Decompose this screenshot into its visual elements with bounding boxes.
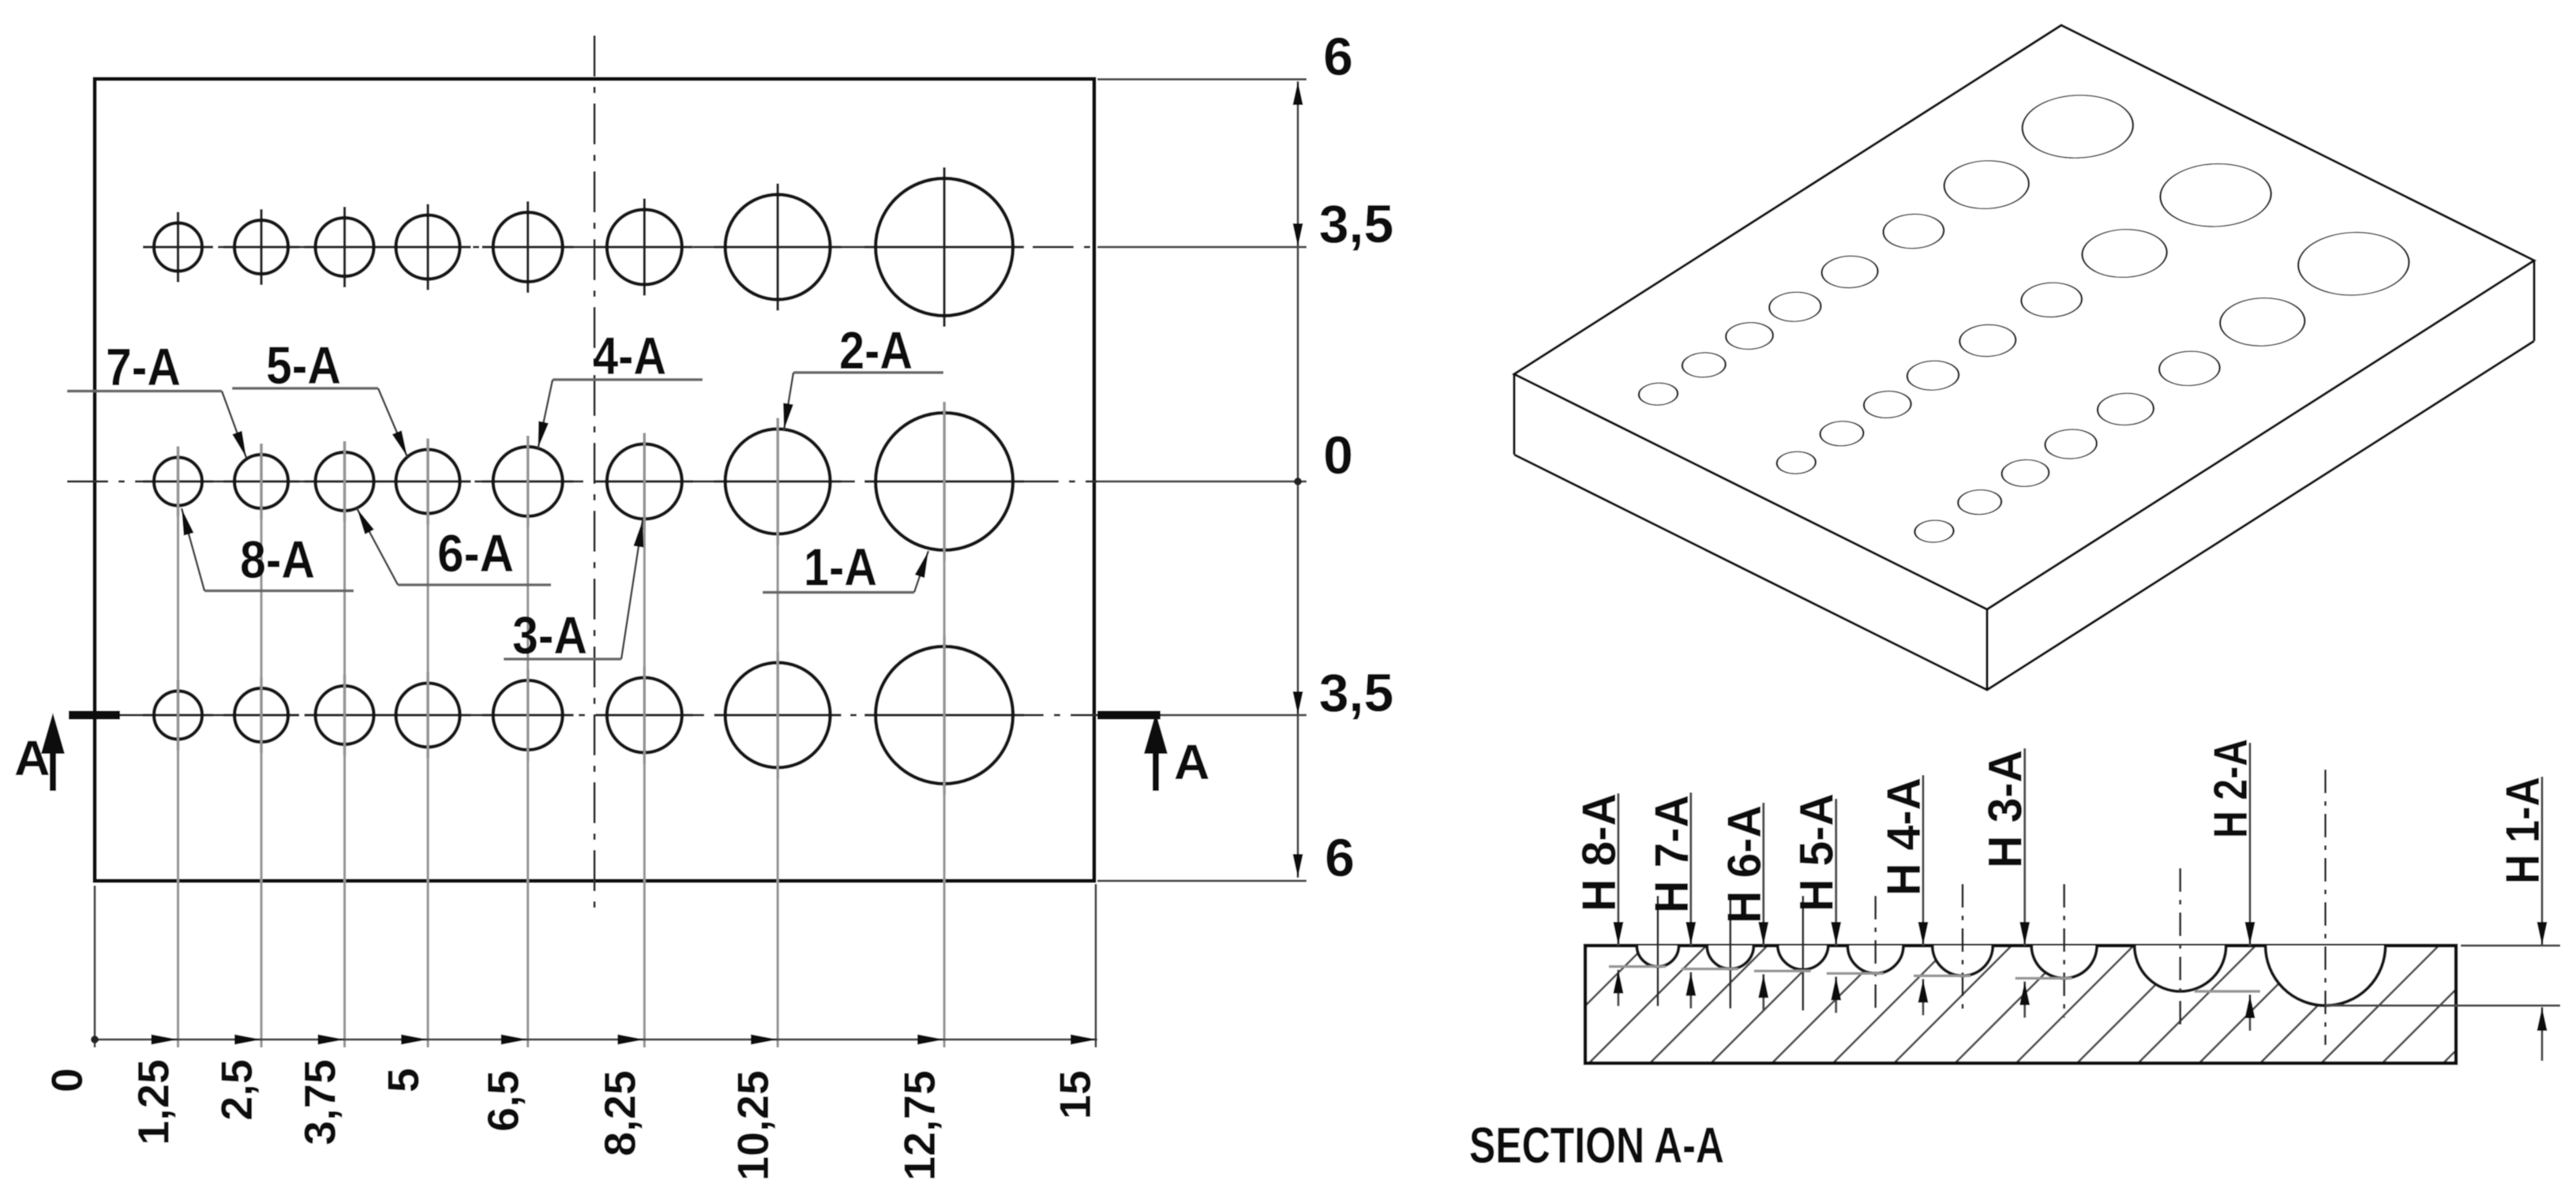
svg-text:10,25: 10,25: [728, 1070, 778, 1181]
section hole 3 centerline: [2063, 884, 2065, 1017]
isometric hole 8-A row 1: [1631, 379, 1685, 410]
hole 1-A row 2: [864, 480, 1024, 482]
isometric hole 7-A row 1: [1674, 348, 1734, 383]
row 2 centerline (datum 0): [67, 481, 1097, 483]
svg-text:3,75: 3,75: [295, 1059, 345, 1145]
svg-text:1-A: 1-A: [804, 538, 877, 597]
bottom extension line at 0: [94, 886, 96, 1047]
section hole 5-A semicircle: [1847, 946, 1903, 973]
svg-text:12,75: 12,75: [894, 1070, 944, 1181]
extension line hole 5: [426, 439, 429, 1048]
section hole 6 centerline: [1802, 896, 1804, 1010]
svg-text:3,5: 3,5: [1319, 663, 1394, 723]
hole 8-A row 1: [143, 245, 213, 248]
svg-text:H 7-A: H 7-A: [1645, 795, 1698, 913]
bottom extension line at 15: [1095, 884, 1097, 1047]
depth dimension H 5-A: [1835, 799, 1837, 946]
section cut mark right: [1097, 711, 1161, 720]
hole 8-A row 3: [143, 714, 213, 716]
svg-text:2,5: 2,5: [212, 1059, 261, 1121]
extension line hole 8: [177, 447, 179, 1048]
isometric hole 6-A row 1: [1716, 317, 1783, 355]
extension line hole 1: [943, 402, 945, 1047]
svg-text:A: A: [14, 731, 51, 786]
hole 3-A row 3: [596, 714, 693, 716]
isometric hole 6-A row 2: [1854, 386, 1921, 424]
isometric hole 4-A row 3: [2086, 387, 2165, 432]
svg-text:SECTION A-A: SECTION A-A: [1469, 1117, 1724, 1174]
isometric hole 5-A row 3: [2034, 424, 2107, 465]
svg-text:H 4-A: H 4-A: [1877, 777, 1930, 896]
hole 2-A row 2: [714, 480, 842, 482]
svg-text:6,5: 6,5: [478, 1070, 528, 1132]
isometric hole 4-A row 2: [1948, 318, 2027, 363]
svg-text:A: A: [1174, 735, 1210, 790]
section plate outline: [1585, 946, 2456, 1063]
svg-text:H 2-A: H 2-A: [2204, 739, 2257, 838]
svg-text:6: 6: [1325, 828, 1355, 888]
hole 6-A row 3: [305, 714, 385, 716]
hole 1-A row 1: [864, 245, 1024, 248]
hole 6-A row 1: [305, 245, 385, 248]
hole 5-A row 1: [385, 245, 471, 248]
svg-text:0: 0: [1323, 425, 1353, 485]
hole 3-A row 1: [596, 245, 693, 248]
depth dimension H 7-A: [1689, 792, 1692, 946]
section hole 1-A semicircle: [2266, 946, 2386, 1006]
isometric hole 7-A row 3: [1949, 485, 2010, 519]
isometric hole 8-A row 2: [1769, 448, 1824, 478]
isometric plate top face: [1514, 25, 2534, 609]
depth dimension H 8-A: [1617, 793, 1619, 946]
section hole 2-A semicircle: [2135, 946, 2226, 991]
section hole 6-A semicircle: [1778, 946, 1828, 969]
isometric plate bottom edges: [1514, 341, 2534, 690]
isometric hole 3-A row 2: [2009, 275, 2094, 324]
hole 1-A row 3: [864, 714, 1024, 716]
hole 7-A row 3: [223, 714, 299, 716]
isometric hole 8-A row 3: [1907, 515, 1961, 546]
bottom dimension line: [95, 1039, 1097, 1041]
row 1 centerline: [150, 246, 1097, 249]
section cut mark left: [69, 711, 120, 720]
svg-text:5-A: 5-A: [266, 336, 341, 395]
hole 7-A row 1: [223, 245, 299, 248]
depth dimension H 3-A: [2023, 748, 2026, 946]
svg-text:3-A: 3-A: [512, 606, 587, 665]
extension line hole 6: [343, 441, 346, 1047]
hole 7-A row 2: [223, 480, 299, 482]
isometric hole 6-A row 3: [1992, 455, 2058, 493]
svg-text:5: 5: [378, 1068, 428, 1092]
section hole 4 centerline: [1962, 884, 1964, 1015]
section hole 1 centerline: [2324, 770, 2327, 1045]
svg-text:15: 15: [1050, 1070, 1100, 1119]
isometric hole 2-A row 2: [2064, 219, 2184, 287]
isometric hole 7-A row 2: [1811, 416, 1872, 451]
hole 4-A row 1: [482, 245, 574, 248]
svg-text:H 1-A: H 1-A: [2496, 777, 2549, 884]
isometric hole 1-A row 2: [2138, 151, 2294, 239]
hole 4-A row 3: [482, 714, 574, 716]
isometric hole 3-A row 3: [2147, 344, 2232, 392]
isometric hole 3-A row 1: [1871, 207, 1956, 255]
svg-text:6-A: 6-A: [437, 524, 514, 583]
svg-text:4-A: 4-A: [593, 327, 666, 386]
hole 2-A row 3: [714, 714, 842, 716]
isometric hole 1-A row 3: [2275, 219, 2432, 308]
extension line hole 3: [643, 433, 646, 1048]
hole 3-A row 2: [596, 480, 693, 482]
svg-text:3,5: 3,5: [1319, 194, 1394, 254]
plate outline (plan view): [95, 79, 1094, 881]
section hole 5 centerline: [1874, 896, 1877, 1013]
depth dimension H 6-A: [1762, 803, 1764, 946]
row 3 centerline (section cut line): [120, 714, 1097, 717]
isometric hole 2-A row 3: [2203, 288, 2322, 356]
isometric hole 2-A row 1: [1927, 151, 2046, 219]
hole 8-A row 2: [143, 480, 213, 482]
extension line hole 7: [260, 444, 262, 1047]
extension line hole 2: [776, 418, 778, 1048]
right dimension line: [1297, 81, 1299, 878]
svg-text:1,25: 1,25: [129, 1059, 178, 1145]
right extension lines: [1097, 78, 1307, 81]
svg-text:H 3-A: H 3-A: [1979, 750, 2032, 868]
vertical centerline of plate: [594, 36, 596, 916]
svg-text:6: 6: [1323, 27, 1353, 87]
hole 5-A row 3: [385, 714, 471, 716]
hole 4-A row 2: [482, 480, 574, 482]
section hole 4-A semicircle: [1933, 946, 1993, 976]
hole 2-A row 1: [714, 245, 842, 248]
svg-text:0: 0: [42, 1068, 92, 1092]
depth dimension H 2-A: [2249, 743, 2252, 946]
extension line hole 4: [527, 436, 529, 1047]
depth dimension H 4-A: [1922, 775, 1925, 946]
hole 5-A row 2: [385, 480, 471, 482]
isometric plate side edges: [1514, 260, 2534, 690]
isometric hole 1-A row 1: [2000, 82, 2156, 170]
section hole 3-A semicircle: [2031, 946, 2097, 978]
svg-text:8-A: 8-A: [240, 530, 315, 590]
hole 6-A row 2: [305, 480, 385, 482]
svg-text:H 6-A: H 6-A: [1718, 805, 1771, 923]
section hole 8 centerline: [1656, 896, 1659, 1006]
svg-text:8,25: 8,25: [595, 1070, 645, 1156]
section hole 7-A semicircle: [1707, 946, 1753, 969]
svg-text:7-A: 7-A: [106, 338, 181, 397]
section hole 7 centerline: [1729, 896, 1731, 1009]
depth dimension H 1-A: [2461, 945, 2560, 947]
section hole 2 centerline: [2179, 868, 2181, 1031]
isometric hole 4-A row 1: [1810, 249, 1889, 294]
section hole 8-A semicircle: [1637, 946, 1678, 967]
svg-text:H 5-A: H 5-A: [1790, 793, 1843, 912]
svg-text:H 8-A: H 8-A: [1573, 793, 1625, 912]
isometric hole 5-A row 2: [1896, 355, 1969, 396]
isometric hole 5-A row 1: [1759, 287, 1832, 328]
